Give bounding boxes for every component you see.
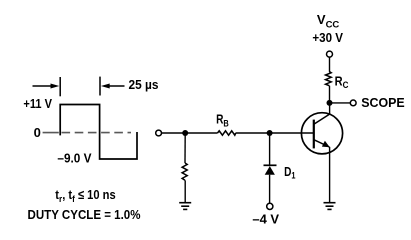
transistor Q1 emitter stroke xyxy=(314,140,330,147)
pulse width tick left xyxy=(59,77,61,96)
wire emitter down to ground xyxy=(329,147,331,202)
resistor RB xyxy=(218,131,236,135)
wire J1 down to resistor R1 xyxy=(184,133,186,163)
svg-text:+11 V: +11 V xyxy=(23,96,52,111)
node junction J1 xyxy=(182,130,188,136)
wire collector up to junction J3 xyxy=(329,103,331,115)
wire J3 to scope terminal xyxy=(330,102,351,104)
wire diode to -4V terminal xyxy=(269,175,271,204)
node junction J3 (collector/scope) xyxy=(327,100,333,106)
node input terminal xyxy=(156,130,162,136)
resistor RC xyxy=(326,72,332,86)
svg-text:–9.0 V: –9.0 V xyxy=(57,151,91,166)
svg-text:–4 V: –4 V xyxy=(252,212,279,227)
wire input to RB xyxy=(162,132,218,134)
dimension arrow right xyxy=(101,84,125,89)
svg-text:0: 0 xyxy=(34,125,41,140)
wire 0-axis dashed baseline xyxy=(62,132,132,134)
transistor Q1 body circle xyxy=(301,113,342,154)
diode D1 anode triangle xyxy=(265,166,275,175)
dimension arrow left xyxy=(33,84,60,89)
wire 0-axis solid segment xyxy=(43,132,59,134)
diode D1 cathode bar xyxy=(264,164,277,166)
wire J2 down to diode xyxy=(269,133,271,165)
wire J3 up to RC xyxy=(329,86,331,103)
pulse width tick right xyxy=(99,77,101,96)
transistor Q1 emitter arrowhead xyxy=(322,141,330,147)
svg-text:tr, tf ≤ 10 ns: tr, tf ≤ 10 ns xyxy=(55,187,115,205)
node SCOPE terminal xyxy=(350,100,356,106)
transistor Q1 base bar xyxy=(313,120,315,149)
svg-text:SCOPE: SCOPE xyxy=(361,95,405,110)
wire RB to junction J2 and transistor base xyxy=(236,132,314,134)
node -4V terminal xyxy=(267,203,273,209)
resistor R1 (vertical, unlabeled) xyxy=(182,163,187,180)
wire VCC terminal to RC xyxy=(329,57,331,72)
svg-text:25 µs: 25 µs xyxy=(129,77,159,92)
svg-text:DUTY CYCLE = 1.0%: DUTY CYCLE = 1.0% xyxy=(28,207,141,222)
waveform pulse trace xyxy=(60,105,137,160)
wire R1 to ground xyxy=(184,180,186,202)
node junction J2 xyxy=(267,130,273,136)
ground (left) xyxy=(179,203,191,210)
svg-text:+30 V: +30 V xyxy=(312,30,343,45)
node VCC terminal xyxy=(327,51,333,57)
transistor Q1 collector stroke xyxy=(314,114,330,124)
ground (emitter) xyxy=(324,203,336,210)
